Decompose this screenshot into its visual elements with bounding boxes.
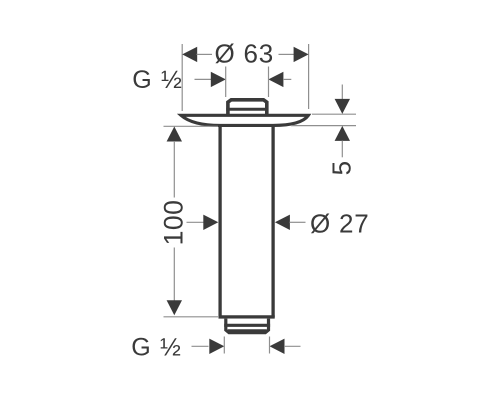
pipe left wall [218,125,221,318]
thread G1/2 bottom arrow right [270,339,285,354]
thread G1/2 top arrow left [211,72,226,87]
dimension 100 line upper segment [173,141,175,198]
svg-text:Ø 27: Ø 27 [310,209,370,239]
bottom thread block [226,319,269,333]
dimension Ø27 tail line left [187,221,205,223]
pipe right wall [271,125,274,318]
dimension Ø27 arrow right [275,215,290,230]
svg-text:5: 5 [326,161,356,175]
thread G1/2 bottom tail line right [284,345,301,347]
dimension 5 extension line lower [291,125,356,127]
escutcheon plate [181,115,308,125]
thread G1/2 bottom extension line left [223,337,225,354]
bottom thread bottom band [228,329,267,332]
dimension Ø27 arrow left [203,215,218,230]
dimension 100 arrow up [167,127,182,142]
dimension Ø63 tail line right [279,53,295,55]
dimension Ø63 arrow left [182,47,197,62]
svg-text:G ½: G ½ [131,334,182,362]
dimension 5 extension line upper [312,113,356,115]
thread G1/2 top tail line right [283,78,291,80]
dimension 5 tail line lower [341,141,343,158]
dimension 100 extension line top [164,125,219,127]
thread G1/2 top arrow right [268,72,283,87]
dimension 5 arrow down [335,99,350,114]
dimension Ø63 extension line right [308,44,310,109]
dimension Ø27 tail line right [290,221,306,223]
thread G1/2 bottom arrow left [209,339,224,354]
thread G1/2 top extension line left [225,67,227,98]
dimension Ø63 arrow right [294,47,309,62]
dimension 5 arrow up [335,126,350,141]
dimension Ø63 extension line left [181,44,183,111]
thread G1/2 top extension line right [268,67,270,98]
dimension 100 line lower segment [173,248,175,301]
bottom thread mid line [224,324,270,327]
svg-text:G ½: G ½ [132,66,183,94]
top thread mid line [226,108,268,111]
thread G1/2 top tail line left [195,78,212,80]
thread G1/2 bottom extension line right [269,337,271,354]
dimension Ø63 tail line left [197,53,213,55]
svg-text:100: 100 [158,200,188,246]
dimension 100 extension line bottom [164,316,219,318]
svg-text:Ø 63: Ø 63 [215,39,275,69]
thread G1/2 bottom tail line left [192,345,209,347]
dimension 5 tail line upper [341,85,343,101]
pipe bottom edge [219,315,275,318]
top thread block [228,100,267,116]
dimension 100 arrow down [167,300,182,315]
